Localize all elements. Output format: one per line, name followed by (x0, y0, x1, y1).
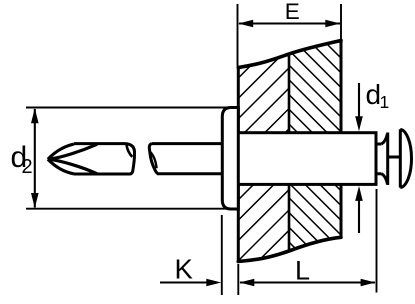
svg-text:K: K (175, 254, 194, 285)
break leaf (tip piece) (127, 145, 133, 157)
plate bottom break edge (wavy) (238, 237, 341, 261)
L dimension line (240, 281, 375, 283)
plate top break edge (wavy) (238, 41, 341, 68)
L arrow right (361, 279, 376, 287)
plate joint line (divider) (288, 54, 291, 251)
K extension line (flange face) (221, 215, 223, 295)
L extension line (rivet end) (376, 189, 378, 293)
K dimension line with right arrow (160, 281, 208, 283)
plate A (left sheet, hatched /) (33, 38, 415, 263)
d2 extension line bottom (26, 208, 230, 210)
break leaf (near piece) (150, 152, 157, 168)
plate right edge (340, 39, 343, 239)
svg-text:L: L (295, 256, 310, 286)
point outer edges (48, 144, 74, 159)
rivet body (tube through plates) (236, 133, 376, 185)
dome (400, 129, 411, 187)
svg-text:E: E (285, 0, 300, 24)
neck (376, 144, 382, 174)
E arrow left (238, 20, 253, 27)
E extension line left (237, 4, 239, 66)
mandrel stem piece near head (149, 144, 222, 174)
E arrow right (325, 20, 340, 27)
break squiggle (left end of near piece) (149, 144, 158, 174)
hub bar (388, 156, 401, 159)
dimension d1 (355, 79, 389, 233)
cone flare (382, 134, 388, 144)
L extension line (plate face, below plate) (237, 264, 239, 295)
d1 lower line with up arrow (358, 200, 360, 233)
E extension line right (340, 4, 342, 39)
d1 upper line with down arrow (358, 83, 360, 118)
dimension L (238, 189, 376, 295)
dimension d2 (11, 108, 231, 209)
E dimension line (239, 22, 340, 24)
d2 extension line top (26, 107, 230, 109)
rivet flange (head) (222, 108, 238, 210)
point flutes (48, 144, 97, 159)
dimension E (238, 0, 342, 66)
d2 dimension line (34, 109, 36, 208)
plate B (right sheet, hatched \) (70, 38, 415, 263)
d2 arrow up (31, 108, 39, 123)
L arrow left (239, 279, 254, 287)
plate left edge (237, 66, 240, 263)
dimension K (160, 215, 222, 295)
svg-text:2: 2 (22, 156, 33, 178)
d2 arrow down (31, 193, 39, 208)
cone base rim (386, 133, 389, 186)
mandrel tip piece (pointed end, broken off view) (48, 144, 135, 174)
svg-text:1: 1 (380, 92, 390, 112)
mandrel head (knob at right end) (376, 129, 412, 187)
broken end squiggle (right end) (126, 144, 135, 174)
cylinder (74, 144, 131, 174)
